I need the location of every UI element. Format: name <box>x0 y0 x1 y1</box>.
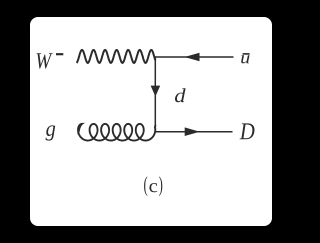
wire: u-bar horizontal line top right <box>155 56 233 58</box>
wire: D quark horizontal line bottom right <box>155 131 232 133</box>
label g <box>46 125 56 140</box>
arrowhead down on d line <box>151 86 161 97</box>
label ) of (c) <box>159 176 162 196</box>
arrowhead right on D line <box>185 127 200 136</box>
label c of (c) <box>149 183 157 192</box>
arrowhead left on u-bar line <box>185 53 200 62</box>
gluon coil line <box>78 124 156 141</box>
figure card background <box>30 17 272 226</box>
wire: d quark vertical line <box>154 56 156 131</box>
label d <box>175 88 186 102</box>
superscript minus of W <box>56 53 63 55</box>
label ( of (c) <box>144 176 147 196</box>
label W <box>37 53 53 68</box>
W boson wavy line <box>77 50 156 63</box>
overline bar of u <box>243 53 250 55</box>
label u of u-bar <box>241 55 249 63</box>
label D <box>240 123 255 139</box>
